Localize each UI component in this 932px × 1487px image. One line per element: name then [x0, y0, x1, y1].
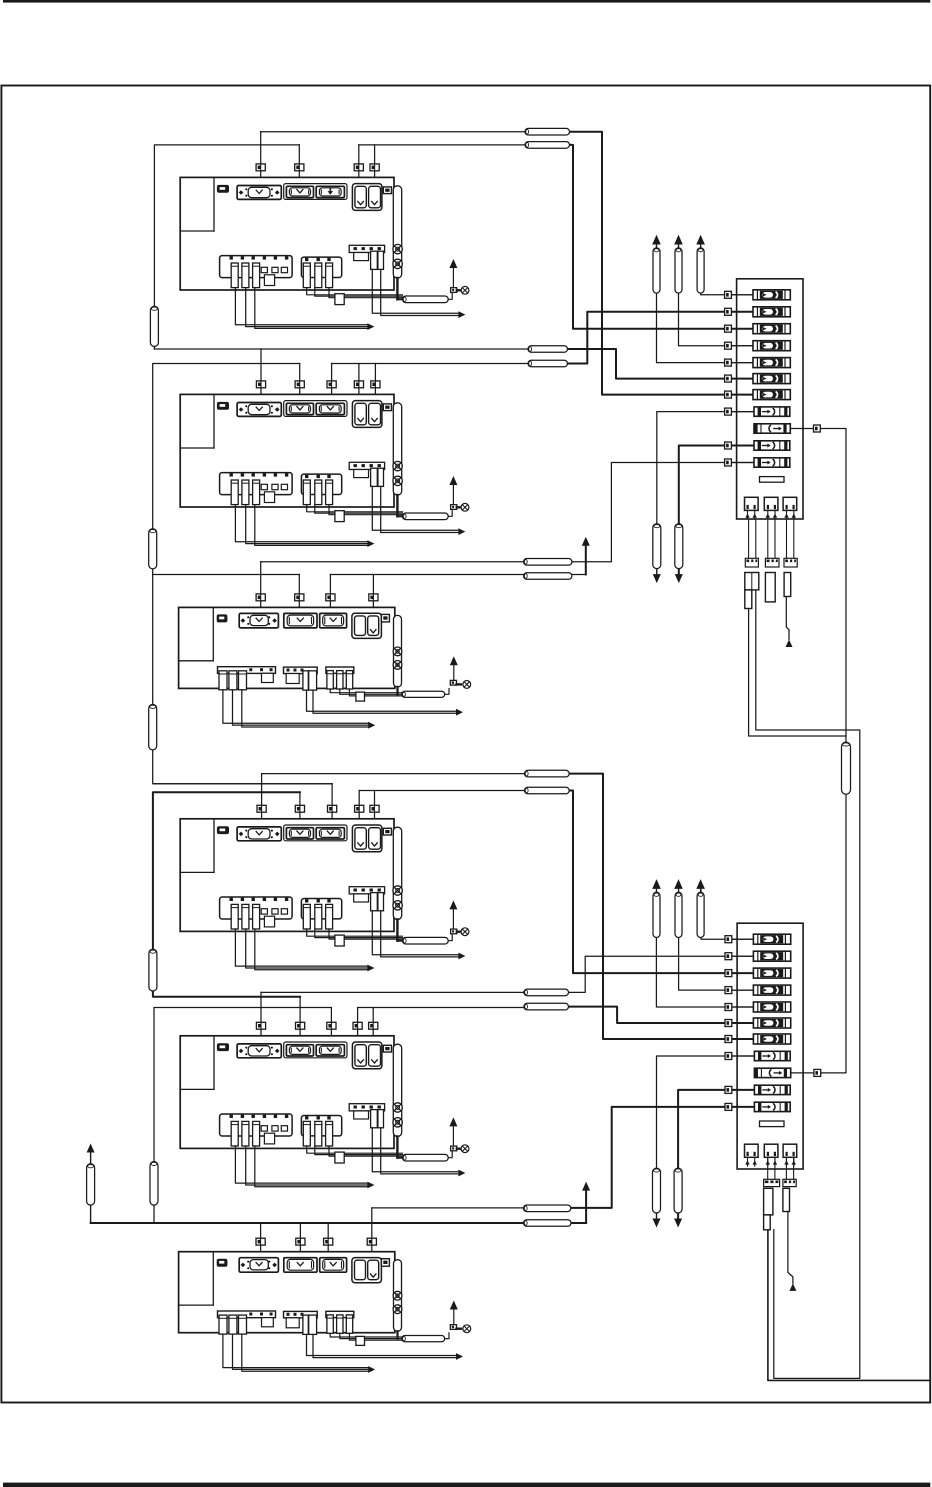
wire riser 1 into block 6	[260, 1223, 262, 1256]
cable shell below panel1 jack2	[767, 520, 769, 558]
wire riser 3 into block 4	[331, 784, 333, 823]
ferrite capsule block2 line C	[528, 360, 568, 367]
wire block3 OUT-B to up-arrow terminator	[330, 574, 585, 576]
input cable capsule 2 above panel1	[675, 248, 682, 293]
ferrite capsule block6 line L	[524, 1220, 572, 1227]
wire stub capsule V3 to panel2 row1	[701, 890, 754, 939]
wire riser 4 into block 1	[374, 145, 376, 182]
cable clamp on riser 2 of block 5	[296, 1022, 305, 1029]
wire block1 OUT-A cable to panel1 row7	[570, 132, 754, 395]
wire riser 4 into block 6	[371, 1208, 373, 1256]
wire block6 line to up-arrow terminator	[91, 1222, 586, 1224]
wire riser 2 into block 3	[298, 575, 300, 612]
wire riser 4 into block 4	[358, 791, 360, 823]
wire chain into block4 line-B	[154, 783, 332, 785]
jack lead stub panel2	[747, 1157, 749, 1166]
cable clamp on riser 4 of block 5	[353, 1022, 362, 1029]
wire panel2 jack2 lead to frame	[768, 1230, 929, 1381]
input cable capsule 3 above panel1	[697, 248, 704, 293]
ferrite capsule block3 line A	[524, 559, 572, 566]
jack lead stub panel1	[786, 510, 788, 519]
jack lead stub panel1	[767, 510, 769, 519]
connector C3 down-arrow glyph block 1	[329, 189, 331, 192]
patch panel 2 enclosure	[737, 923, 803, 1169]
ferrite capsule link wire	[842, 742, 851, 794]
arrow up terminator block3 line B	[582, 537, 590, 546]
wire riser 2 into block 4	[299, 792, 301, 823]
wire riser 2 into block 1	[298, 145, 300, 182]
wire block3 OUT-A to panel1 row11	[261, 463, 754, 562]
patch panel 1 rows	[725, 290, 821, 467]
wire riser 1 into block 3	[260, 562, 262, 612]
arrow up terminator block6 line L	[582, 1182, 590, 1191]
wire block4 OUT-A cable to panel2 row7	[569, 774, 754, 1039]
arrow up below panel2 jack3 wire	[789, 1283, 796, 1291]
arrow up below panel1 jack3 wire	[786, 640, 793, 648]
blank label bar panel1	[760, 477, 785, 483]
wire riser 5 into block 5	[372, 1008, 374, 1040]
cable clamp on riser 2 of block 4	[295, 805, 304, 812]
output cable capsule 2 below panel2	[674, 1168, 682, 1213]
device block 3 (short unit)	[179, 607, 471, 728]
wire block3 arrow stem	[585, 546, 587, 575]
connector C3 chevron block 2	[327, 407, 333, 410]
wire block1 OUT-B to left chain	[154, 145, 299, 349]
patch panel 1 enclosure	[737, 279, 803, 519]
cable clamp on riser 1 of block 2	[256, 381, 265, 388]
wire riser 1 into block 1	[260, 132, 262, 182]
cable clamp on riser 2 of block 2	[295, 381, 304, 388]
output cable capsule 1 below panel1	[653, 524, 661, 569]
device block 4 (receiver unit)	[180, 819, 469, 972]
cable clamp on riser 2 of block 6	[296, 1238, 305, 1245]
wire riser 3 into block 6	[327, 1223, 329, 1256]
blank label bar panel2	[760, 1121, 785, 1127]
wire block1 OUT-A to capsule	[261, 131, 570, 133]
wire riser 4 into block 5	[357, 1008, 359, 1040]
wire riser 1 into block 4	[261, 774, 263, 823]
output jack square 3 panel2	[783, 1144, 797, 1157]
output jack square 2 panel1	[764, 497, 778, 510]
wire riser 2 into block 5	[299, 997, 301, 1040]
wire block5 OUT-D to capsule	[358, 1007, 569, 1009]
output jack square 1 panel2	[745, 1144, 759, 1157]
wire riser 2 into block 2	[299, 364, 301, 399]
ferrite capsule left chain 1	[150, 306, 158, 346]
wire riser 5 into block 4	[374, 791, 376, 823]
cable shell below panel2 jack2	[767, 1157, 769, 1179]
wire block4 OUT-A to capsule	[262, 773, 569, 775]
wire panel1 jack1 lead B	[756, 590, 860, 1379]
output jack square 3 panel1	[783, 497, 797, 510]
patch panel 2 rows	[725, 934, 821, 1111]
cable clamp on riser 1 of block 6	[256, 1238, 265, 1245]
wire block2 OUT-C cable to panel1 row2	[567, 312, 754, 364]
wire stub capsule V2 to panel2 row4	[679, 890, 754, 990]
cable clamp on riser 4 of block 6	[367, 1238, 376, 1245]
wire panel2 row10 to down capsule	[678, 1090, 753, 1222]
plug housing below panel1 jack1	[745, 573, 759, 590]
wire block4 OUT-C to left chain segment 4	[153, 792, 300, 997]
device block 5 (receiver unit)	[180, 1036, 469, 1189]
wire stub capsule V2 to panel1 row4	[679, 244, 754, 346]
input cable capsule 3 above panel2	[697, 892, 704, 937]
plug housing below panel2 jack3	[783, 1188, 790, 1211]
ferrite capsule left chain 3	[149, 704, 157, 750]
wire chain to block2 line-A	[154, 348, 567, 350]
ferrite capsule left chain 4	[149, 949, 157, 991]
cable clamp on riser 4 of block 2	[354, 381, 363, 388]
wire block6 arrow stem	[585, 1190, 587, 1223]
wire block5 OUT-D cable to panel2 row6	[569, 1007, 754, 1023]
output jack square 2 panel2	[764, 1144, 778, 1157]
jack lead stub panel1	[774, 510, 776, 519]
cable clamp on riser 3 of block 6	[324, 1238, 333, 1245]
connector C3 chevron block 5	[327, 1048, 333, 1051]
plug housing below panel2 jack2	[764, 1188, 773, 1215]
cable clamp on riser 2 of block 3	[295, 594, 304, 601]
cable clamp on riser 3 of block 1	[354, 164, 363, 171]
ferrite capsule block6 left arrow	[87, 1164, 95, 1205]
wire panel1 jack1 lead A	[749, 609, 846, 737]
top rule bar	[3, 0, 930, 3]
wire block5 OUT-C to left chain segment 5	[154, 1008, 331, 1224]
wire link panel1 row9 to panel2 row9	[820, 429, 846, 1073]
plug housing below panel1 jack2	[765, 573, 775, 602]
connector C3 chevron block 4	[327, 831, 333, 834]
cable clamp on riser 1 of block 3	[256, 594, 265, 601]
cable clamp on riser 1 of block 5	[256, 1022, 265, 1029]
wire block4 OUT-D to capsule	[359, 790, 569, 792]
wire block5 OUT-A to panel2 row2	[261, 956, 754, 992]
wire block1 OUT-C cable to panel1 row3	[570, 145, 754, 329]
cable shell below panel1 jack1	[748, 520, 750, 558]
wire riser 5 into block 2	[374, 364, 376, 399]
cable clamp on riser 4 of block 4	[355, 805, 364, 812]
arrow up terminator block6 left capsule	[87, 1144, 95, 1153]
ferrite capsule block4 line A	[525, 770, 570, 777]
cable clamp on riser 5 of block 4	[370, 805, 379, 812]
cable clamp on riser 2 of block 1	[295, 164, 304, 171]
ferrite capsule block5 line D	[524, 1003, 569, 1010]
cable clamp on riser 5 of block 5	[369, 1022, 378, 1029]
ferrite capsule left chain 2	[149, 529, 157, 569]
wire riser 4 into block 2	[358, 364, 360, 399]
wire riser 2 into block 6	[299, 1223, 301, 1256]
jack lead stub panel1	[754, 510, 756, 519]
ferrite capsule block6 line U	[524, 1205, 571, 1212]
wire block6 left capsule riser	[90, 1153, 92, 1223]
wire riser 1 into block 5	[260, 992, 262, 1039]
wire panel1 row8 to down capsule	[657, 412, 754, 578]
cable shell below panel1 jack3	[786, 520, 788, 558]
jack lead stub panel2	[793, 1157, 795, 1166]
wire block4 OUT-D cable to panel2 row3	[569, 791, 754, 974]
cable clamp on riser 1 of block 4	[257, 805, 266, 812]
wire panel2 jack3 lead	[788, 1212, 793, 1284]
wire riser 3 into block 1	[358, 145, 360, 182]
jack lead stub panel2	[767, 1157, 769, 1166]
plug housing below panel1 jack3	[784, 573, 791, 597]
input cable capsule 1 above panel2	[653, 892, 660, 937]
wire riser 1 into block 2	[260, 349, 262, 398]
output cable capsule 1 below panel2	[653, 1168, 661, 1213]
ferrite capsule block2 line A	[528, 346, 568, 353]
cable clamp on riser 1 of block 1	[256, 164, 265, 171]
output jack square 1 panel1	[745, 497, 759, 510]
ferrite capsule left chain 5	[150, 1162, 158, 1206]
wire stub capsule V1 to panel2 row5	[656, 890, 753, 1007]
jack lead stub panel1	[793, 510, 795, 519]
wire panel1 jack3 lead	[786, 597, 789, 640]
wire block2 OUT-A cable to panel1 row6	[567, 349, 754, 379]
ferrite capsule block3 line B	[524, 573, 572, 580]
jack lead stub panel2	[786, 1157, 788, 1166]
jack lead stub panel2	[774, 1157, 776, 1166]
wire block2 OUT-C to capsule	[332, 363, 567, 365]
cable clamp on riser 4 of block 3	[369, 594, 378, 601]
cable shell below panel2 jack3	[785, 1157, 787, 1179]
cable clamp on riser 3 of block 4	[328, 805, 337, 812]
cable clamp on riser 3 of block 5	[327, 1022, 336, 1029]
input cable capsule 1 above panel1	[653, 248, 660, 293]
ferrite capsule block1 line C	[525, 142, 570, 149]
wire block6 OUT-U cable to panel2 row11	[571, 1107, 754, 1208]
cable clamp on riser 5 of block 2	[371, 381, 380, 388]
device block 6 (short unit)	[179, 1252, 471, 1373]
cable clamp on riser 4 of block 1	[370, 164, 379, 171]
wire riser 4 into block 3	[372, 575, 374, 612]
bottom rule bar	[3, 1483, 930, 1487]
wire panel1 row10 to down capsule	[679, 446, 754, 579]
ferrite capsule block4 line D	[525, 787, 570, 794]
device block 1 (receiver unit)	[180, 177, 469, 330]
device block 2 (receiver unit)	[180, 394, 469, 547]
wire riser 3 into block 2	[331, 364, 333, 399]
wire block6 OUT-U to capsule	[372, 1207, 571, 1209]
ferrite capsule block1 line A	[525, 128, 570, 135]
cable clamp on riser 3 of block 3	[326, 594, 335, 601]
output cable capsule 2 below panel1	[675, 524, 683, 569]
wire riser 3 into block 3	[329, 575, 331, 612]
wire block2 OUT-B to left chain segment 2	[153, 364, 332, 784]
cable clamp on riser 3 of block 2	[327, 381, 336, 388]
ferrite capsule block5 line A	[524, 989, 569, 996]
jack lead stub panel1	[747, 510, 749, 519]
input cable capsule 2 above panel2	[675, 892, 682, 937]
wire stub capsule V1 to panel1 row5	[657, 244, 754, 363]
wire block1 OUT-C to capsule	[359, 144, 570, 146]
wire chain tee to block3 line	[153, 574, 300, 576]
wire panel2 row8 to down capsule	[657, 1056, 754, 1222]
wire riser 3 into block 5	[330, 1008, 332, 1040]
jack lead stub panel2	[754, 1157, 756, 1166]
wire stub capsule V3 to panel1 row1	[701, 244, 754, 295]
